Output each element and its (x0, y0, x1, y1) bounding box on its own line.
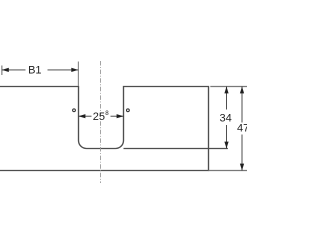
47 up arrow (240, 87, 244, 94)
top edge extension line (210, 86, 247, 88)
47 down arrow (240, 164, 244, 171)
B1 right arrow (71, 68, 78, 72)
34 up arrow (224, 87, 228, 94)
dimension 34 line (226, 87, 228, 110)
dimension 25 line (79, 115, 92, 117)
34 down arrow (224, 142, 228, 149)
shelf line at cutout bottom level (124, 148, 228, 150)
svg-text:8: 8 (105, 110, 109, 117)
bottom edge extension line (209, 170, 248, 172)
25 right arrow (117, 114, 124, 118)
svg-text:34: 34 (219, 112, 231, 124)
centerline (dash-dot) (100, 61, 102, 183)
dimension B1 line (2, 69, 26, 71)
svg-text:B1: B1 (28, 65, 41, 77)
B1 right extension line (above cutout left edge) (77, 62, 79, 87)
panel outline with U-cutout (left side clipped at image edge) (0, 87, 209, 171)
B1 left terminator tick (1, 66, 3, 76)
25 left arrow (79, 114, 86, 118)
svg-text:47: 47 (237, 123, 247, 135)
svg-text:25: 25 (93, 111, 105, 123)
dimension 47 line (241, 87, 243, 123)
right small circle (127, 109, 130, 112)
left small circle (73, 109, 76, 112)
B1 left arrow (2, 68, 9, 72)
